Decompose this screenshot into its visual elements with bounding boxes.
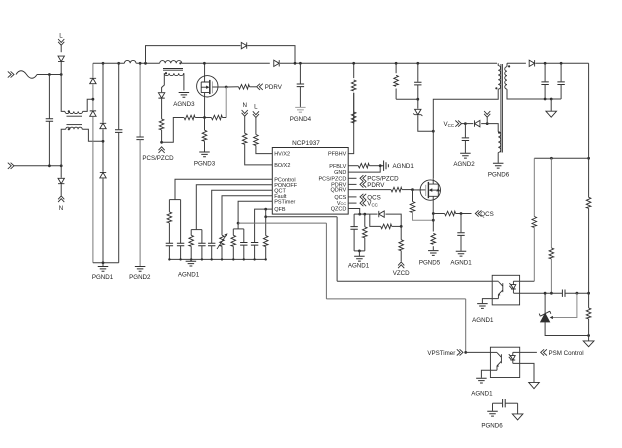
wire output cap1 bottom lead <box>544 85 546 100</box>
svg-text:QFB: QFB <box>274 207 286 213</box>
node bridge leg1 AC <box>92 98 95 101</box>
node bridge bottom <box>102 261 105 264</box>
node PSTimer branch <box>237 222 240 225</box>
wire VCC chevron to node <box>461 123 465 125</box>
wire QZCD R bottom <box>364 238 366 251</box>
wire gate node to Q2 <box>413 189 426 191</box>
polarity dot primary <box>495 87 497 89</box>
svg-text:BO/X2: BO/X2 <box>274 163 290 169</box>
chevron QCS takeoff <box>475 210 481 216</box>
svg-text:AGND1: AGND1 <box>472 317 494 324</box>
resistor PCS sense series <box>184 115 195 120</box>
wire PControl C2 top <box>180 200 182 244</box>
resistor QDRV gate <box>391 187 402 192</box>
wire PControl C to rail <box>168 246 170 260</box>
diode N input <box>58 178 64 183</box>
capacitor QCT timing <box>208 243 215 246</box>
node source pulldown return <box>432 219 435 222</box>
node Q2 drain <box>432 130 435 133</box>
wire PSTimer under IC <box>238 222 326 224</box>
wire divider lower top <box>588 293 590 308</box>
wire to ground triangle <box>588 336 590 341</box>
wire divider mid down <box>550 158 552 248</box>
wire rail to AGND1 ground <box>190 259 192 261</box>
wire PFC coil to MOSFET drain <box>182 62 205 64</box>
inductor PFC boost winding <box>160 61 182 64</box>
PFC transformer core <box>163 69 183 71</box>
wire secondary bottom rail <box>507 89 561 99</box>
wire divider mid to node <box>550 259 552 293</box>
wire bulk leg bottom <box>118 132 120 262</box>
wire N node to choke w2 left <box>61 129 66 166</box>
wire bridge leg2 mid <box>102 129 104 172</box>
node aux diode junction <box>486 122 489 125</box>
common-mode choke core bar 1 <box>67 115 83 117</box>
transistor Q1 PFC MOSFET <box>197 63 218 117</box>
wire bulk cap bottom <box>299 87 301 108</box>
wire sense resistor to PGND3 <box>204 141 206 151</box>
resistor QZCD lower <box>363 227 368 238</box>
node comp junction <box>550 292 553 295</box>
wire output cap1 top lead <box>544 63 546 81</box>
wire QZCD R top <box>364 214 366 227</box>
wire Fault <box>222 196 272 236</box>
wire QFB node to resistor <box>265 217 267 236</box>
diode VCC rectifier <box>474 120 479 126</box>
wire QZCD to diode <box>370 213 378 215</box>
capacitor Y safety <box>503 399 506 407</box>
wire gate pulldown top <box>412 190 414 202</box>
svg-text:PCS/PZCD: PCS/PZCD <box>318 176 346 182</box>
wire PSTimer C to rail <box>243 245 245 259</box>
wire PCS/PZCD pin stub <box>348 177 356 179</box>
diode bridge D3 <box>100 123 106 128</box>
arrow TL431 reference <box>550 316 553 319</box>
chevron N divider <box>242 110 248 116</box>
node bus bridge leg2 <box>102 62 105 65</box>
wire QCT C to rail <box>211 246 213 260</box>
wire PSTimer across <box>326 298 465 300</box>
wire L diode to node <box>60 62 62 75</box>
zener clamp diode <box>413 109 422 116</box>
arrow Q1 body diode <box>206 86 209 89</box>
node QFB takeoff <box>264 215 267 218</box>
arrow U3 emitter <box>497 365 499 367</box>
node VCC aux <box>464 122 467 125</box>
wire source node to sense resistor <box>204 118 206 131</box>
wire VZCD resistor top <box>400 226 402 239</box>
svg-text:N: N <box>59 205 63 212</box>
diode bypass <box>241 42 246 48</box>
wire primary top <box>497 63 499 65</box>
wire gate pulldown drop <box>225 87 227 118</box>
node snubber zener <box>416 98 419 101</box>
wire Vout down <box>588 63 590 158</box>
svg-text:QZCD: QZCD <box>331 207 347 213</box>
svg-text:PFBHV: PFBHV <box>328 152 347 158</box>
wire choke w1 right to bridge node <box>83 99 93 111</box>
wire bridge bottom rail <box>93 262 119 264</box>
capacitor to PGND2 <box>136 137 143 140</box>
wire to comp cap <box>545 292 562 294</box>
resistor PDRV gate <box>239 85 250 90</box>
transistor U3 phototransistor <box>497 353 501 371</box>
resistor opto bias <box>532 217 537 228</box>
polarity dot choke winding2 <box>68 128 70 130</box>
node Q2 gate <box>411 188 414 191</box>
wire PSTimer to RC bar <box>237 223 239 229</box>
wire PSTimer C top <box>243 229 245 243</box>
svg-text:QDRV: QDRV <box>331 188 347 194</box>
node bridge leg2 AC <box>102 140 105 143</box>
wire TL431 cathode bar diagonal <box>539 311 551 316</box>
resistor VZCD series <box>399 240 404 251</box>
diode L input <box>58 56 64 61</box>
wire Q1 gate <box>212 86 226 88</box>
wire Fault to rail <box>221 246 223 259</box>
svg-text:QCS: QCS <box>334 195 346 201</box>
op-amp U1 NCP1937 controller IC body <box>272 148 348 215</box>
wire PONOFF C to rail <box>201 246 203 260</box>
capacitor snubber <box>414 82 421 85</box>
svg-text:PGND3: PGND3 <box>194 161 216 168</box>
wire PFBHV top <box>353 63 355 78</box>
capacitor PControl parallel <box>177 243 184 246</box>
capacitor QZCD filter <box>350 227 357 230</box>
node upper divider mid <box>550 157 553 160</box>
wire QFB riser <box>336 217 338 281</box>
ground AGND1 QZCD <box>354 256 365 261</box>
wire L chevron to diode <box>60 45 62 52</box>
resistor divider mid <box>549 248 554 259</box>
resistor PControl compensation <box>167 212 172 223</box>
chevron VPSTimer <box>457 349 463 355</box>
wire L chevron to resistor <box>255 118 257 135</box>
polarity dot secondary <box>508 65 510 67</box>
ground AGND3 <box>179 93 190 98</box>
wire comp cap to divider <box>565 292 589 294</box>
node output cap1 top <box>544 62 547 65</box>
wire bridge leg2 top <box>102 63 104 122</box>
svg-text:VPSTimer: VPSTimer <box>427 350 455 357</box>
resistor Q1 gate pulldown <box>211 115 222 120</box>
node Vout divider tap <box>587 157 590 160</box>
chevron QCS right <box>360 194 366 200</box>
resistor PONOFF <box>189 235 194 246</box>
node bypass rejoin <box>294 62 297 65</box>
wire N chevron to resistor <box>244 116 246 133</box>
resistor ZCD series <box>159 119 164 130</box>
capacitor bulk PGND4 <box>297 84 304 87</box>
wire PSTimer riser <box>325 223 327 299</box>
node ref takeoff <box>576 292 579 295</box>
svg-text:AGND3: AGND3 <box>173 101 195 108</box>
node QZCD b <box>363 213 366 216</box>
wire opto LED anode to divider <box>513 280 534 282</box>
wire fuse to L node <box>37 74 61 76</box>
optocoupler U3 box <box>490 347 519 377</box>
ground AGND1 rail <box>186 261 197 266</box>
ground output triangle <box>546 111 557 117</box>
node bypass branch <box>144 62 147 65</box>
wire secondary to output diode <box>507 62 526 64</box>
wire bulk cap top <box>299 63 301 83</box>
node bottom ground <box>587 334 590 337</box>
wire PControl RC bar <box>169 199 180 201</box>
diode bridge D4 <box>100 172 106 177</box>
svg-text:PDRV: PDRV <box>367 182 385 189</box>
ground AGND2 <box>460 153 471 158</box>
capacitor PSTimer <box>240 243 247 246</box>
polarity dot choke winding1 <box>68 110 70 112</box>
wire aux winding to PGND6 <box>497 153 499 163</box>
chevron L divider <box>253 111 259 117</box>
input terminal line L <box>8 71 14 77</box>
svg-text:VZCD: VZCD <box>393 270 410 277</box>
inductor transformer secondary <box>505 67 507 89</box>
svg-text:PGND1: PGND1 <box>92 274 114 281</box>
wire divider lower bottom <box>588 319 590 336</box>
wire PFBLV resistor to node <box>369 165 380 167</box>
wire opto LED cathode to TL431 <box>513 292 545 294</box>
wire QCS resistor to chevron <box>456 213 472 215</box>
svg-text:QCS: QCS <box>480 211 493 218</box>
wire PSTimer R top <box>232 229 234 235</box>
node L junction <box>60 73 63 76</box>
wire PGND2 cap bottom <box>139 140 141 267</box>
wire PGND1 stem <box>102 263 104 267</box>
wire PONOFF <box>196 185 272 230</box>
wire QZCD node bar <box>354 213 370 215</box>
wire PSTimer <box>238 201 272 223</box>
node bus PGND2 cap <box>139 62 142 65</box>
fuse F1 <box>16 71 37 79</box>
wire sense resistor to PGND5 <box>432 246 434 250</box>
wire bridge leg1 top <box>92 63 94 77</box>
resistor PFBHV lower <box>351 112 356 123</box>
inductor EMI filter <box>124 60 136 63</box>
resistor divider lower <box>586 308 591 319</box>
ground Y-cap triangle <box>512 414 523 420</box>
capacitor X across line <box>46 119 53 122</box>
wire bus bridge to filter inductor <box>93 62 125 64</box>
wire VCC pin stub <box>348 202 356 204</box>
svg-text:AGND1: AGND1 <box>393 163 415 170</box>
node TL431 cathode <box>544 292 547 295</box>
wire source to QCS resistor <box>433 213 444 215</box>
wire drain node to Q2 <box>432 131 434 178</box>
wire opto2 LED cathode to ground <box>513 363 534 382</box>
wire filter inductor to PFC coil <box>136 62 160 64</box>
wire N node to diode <box>60 166 62 178</box>
wire bridge leg1 bottom <box>92 117 94 263</box>
node QCS filter <box>460 212 463 215</box>
wire QZCD R parallel left <box>370 214 381 226</box>
diode PFC boost <box>274 60 279 66</box>
resistor QZCD parallel <box>381 224 392 229</box>
node bus snubber R <box>395 62 398 65</box>
wire VCC node to diode <box>465 123 473 125</box>
resistor Fault NTC <box>220 235 225 246</box>
chevron PDRV right <box>360 181 366 187</box>
wire PControl <box>175 179 272 199</box>
wire TL431 anode to ground rail <box>545 322 589 336</box>
wire QZCD to AGND1 <box>358 251 360 256</box>
transformer T2 core <box>501 64 503 153</box>
wire output ground stem <box>550 99 552 111</box>
resistor QFB pullup <box>263 236 268 247</box>
wire primary bottom to drain <box>433 89 498 131</box>
node PFBLV <box>379 164 382 167</box>
svg-text:PGND5: PGND5 <box>419 260 441 267</box>
wire QFB R to rail <box>265 247 267 260</box>
node Q1 gate <box>225 86 228 89</box>
wire opto2 LED anode to PSM <box>513 351 537 353</box>
ground secondary triangle <box>583 341 594 347</box>
wire QFB <box>255 209 273 242</box>
inductor transformer primary <box>498 66 500 89</box>
svg-text:AGND1: AGND1 <box>178 272 200 279</box>
node QZCD gnd bar <box>358 250 361 253</box>
wire bridge leg2 bottom <box>102 178 104 262</box>
node PCS/PZCD <box>160 141 163 144</box>
wire opto collector inside <box>492 280 498 282</box>
resistor PFBLV <box>358 163 369 168</box>
inductor PFC ZCD winding <box>164 73 183 75</box>
transistor Q2 flyback MOSFET <box>420 178 440 213</box>
ground PGND2 <box>135 267 146 272</box>
capacitor compensation <box>562 290 565 297</box>
polarity dot aux winding <box>498 132 500 134</box>
wire opto bias lower <box>533 228 535 282</box>
wire snubber R bottom <box>395 89 397 100</box>
wire boost diode to transformer <box>280 62 497 64</box>
wire N input <box>14 165 61 167</box>
wire N diode to chevron <box>60 184 62 195</box>
wire VZCD resistor bottom <box>400 251 402 262</box>
wire divider R1 to node <box>588 208 590 293</box>
chevron aux down <box>484 111 490 117</box>
svg-text:N: N <box>242 102 246 109</box>
node QZCD a <box>358 213 361 216</box>
wire QZCD bottom bar <box>354 250 365 252</box>
wire ZCD resistor to node <box>161 130 163 142</box>
node Q2 source <box>432 212 435 215</box>
chevron VCC aux <box>455 121 461 127</box>
wire PControl R top <box>168 200 170 212</box>
wire snubber R top <box>395 63 397 73</box>
svg-text:AGND1: AGND1 <box>348 263 370 270</box>
svg-text:PGND6: PGND6 <box>488 172 510 179</box>
common-mode choke winding 1 coil <box>65 111 83 113</box>
transistor TL431 shunt regulator <box>541 293 550 322</box>
wire bulk leg top <box>118 63 120 129</box>
wire snubber C bottom <box>417 85 419 99</box>
wire QCT <box>212 190 273 243</box>
chevron VCC right <box>360 200 366 206</box>
svg-text:PCS/PZCD: PCS/PZCD <box>142 155 174 162</box>
wire aux chevron stem <box>486 117 488 123</box>
capacitor VCC <box>462 138 469 141</box>
wire QDRV <box>348 189 391 191</box>
resistor snubber <box>394 75 399 86</box>
node divider lower tap <box>587 292 590 295</box>
arrow NTC diagonal <box>217 235 227 249</box>
resistor L divider <box>254 135 259 146</box>
wire ZCD right to AGND3 <box>183 73 185 90</box>
arrow U2 emitter <box>498 294 500 296</box>
wire PFBHV riser lower <box>348 93 354 154</box>
input terminal line N <box>8 163 14 169</box>
svg-text:PSM Control: PSM Control <box>549 350 584 357</box>
wire Vout to divider R1 <box>588 158 590 197</box>
ground PGND1 <box>98 267 109 272</box>
resistor PSTimer <box>231 235 236 246</box>
resistor Q2 gate pulldown <box>410 202 415 213</box>
wire opto bias upper <box>533 158 535 216</box>
wire PFBHV between R <box>353 111 355 123</box>
wire VCC diode to junction <box>481 123 487 125</box>
svg-text:L: L <box>254 103 258 110</box>
wire PSTimer down to VPSTimer <box>465 299 467 353</box>
chevron PDRV <box>257 84 263 90</box>
svg-text:GND: GND <box>334 170 346 176</box>
node bus PFBHV divider <box>352 62 355 65</box>
wire VCC cap bottom <box>464 141 466 153</box>
wire zener to drain node <box>418 115 434 131</box>
common-mode choke core bar 2 <box>67 124 83 126</box>
node output return a <box>544 98 547 101</box>
capacitor output 2 <box>557 82 564 85</box>
wire bypass diode right <box>248 46 296 64</box>
diode ZCD sense <box>158 93 164 98</box>
node QFB branch <box>264 208 267 211</box>
wire output cap2 bottom lead <box>560 85 562 100</box>
node VPSTimer <box>464 351 467 354</box>
wire QZCD diode to node <box>386 214 402 226</box>
ground PGND6 Y-cap <box>487 411 498 416</box>
wire PONOFF C top <box>201 230 203 244</box>
wire gate resistor to node <box>402 189 413 191</box>
svg-text:PGND6: PGND6 <box>481 423 503 430</box>
svg-text:PSTimer: PSTimer <box>274 199 295 205</box>
resistor N divider <box>242 133 247 144</box>
capacitor PControl series <box>166 243 173 246</box>
wire X-cap to N node <box>48 121 50 166</box>
wire source to sense resistor <box>432 214 434 232</box>
wire QZCD R parallel right <box>392 225 402 227</box>
diode output rectifier <box>529 60 534 66</box>
svg-text:AGND1: AGND1 <box>450 260 472 267</box>
wire QCS cap top <box>460 214 462 233</box>
wire PSTimer RC bar <box>233 228 244 230</box>
wire output diode to Vout <box>535 62 588 64</box>
wire QZCD cap bottom <box>353 229 355 251</box>
wire QFB to resistor node <box>265 209 267 217</box>
inductor transformer aux winding <box>498 132 501 153</box>
node L-cap junction <box>48 73 51 76</box>
capacitor rectified bus <box>115 130 122 133</box>
wire Y-cap right drop <box>517 403 519 414</box>
wire divider top link <box>534 157 588 159</box>
wire opto2 emitter to AGND1 <box>481 370 497 378</box>
resistor QCS sense takeoff <box>445 211 456 216</box>
wire output cap2 top lead <box>560 63 562 81</box>
wire pulldown resistor to source node <box>205 117 212 119</box>
wire to source node <box>195 117 204 119</box>
node output return b <box>550 98 553 101</box>
ground PGND5 <box>428 251 439 256</box>
